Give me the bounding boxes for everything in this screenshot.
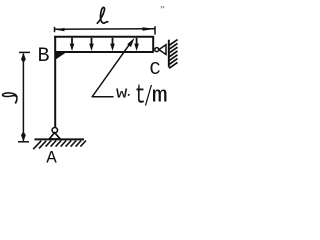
- arrowhead right of top dimension: [143, 27, 155, 31]
- scan speck top right: [161, 6, 164, 8]
- arrowhead down of left dimension: [21, 131, 26, 141]
- svg-text:A: A: [46, 148, 57, 168]
- label ell (beam length): [97, 7, 107, 23]
- svg-text:w: w: [116, 85, 128, 104]
- roller triangle at C: [159, 45, 166, 55]
- distributed load arrow 4: [134, 38, 139, 51]
- corner fillet at B: [56, 53, 66, 60]
- beam right end cap at C: [152, 36, 154, 53]
- dimension line top (span ell): [55, 26, 156, 34]
- svg-text:m: m: [152, 84, 168, 109]
- arrowhead left of top dimension: [55, 28, 65, 31]
- hinge pin at A: [52, 128, 57, 133]
- ground hatching at A: [33, 141, 86, 150]
- column AB: [54, 36, 56, 128]
- load value label w.t/m: [116, 80, 168, 114]
- ground line at A: [35, 138, 85, 140]
- beam BC: member line (bottom): [55, 51, 154, 53]
- arrowhead up of left dimension: [21, 53, 26, 63]
- wall line at C: [168, 40, 170, 67]
- beam BC: load line (top): [54, 36, 153, 38]
- wall hatching at C: [169, 40, 178, 69]
- dimension line left (column height ell): [18, 52, 30, 141]
- distributed load arrow 1: [70, 38, 75, 51]
- roller pin at C: [155, 48, 159, 52]
- leader line to load label: [92, 38, 135, 97]
- pin support triangle at A: [49, 133, 60, 139]
- svg-text:B: B: [38, 45, 50, 68]
- distributed load arrow 2: [89, 38, 94, 51]
- rotated label ell (column height): [3, 93, 17, 103]
- distributed load arrow 3: [110, 38, 115, 51]
- svg-text:C: C: [150, 59, 161, 80]
